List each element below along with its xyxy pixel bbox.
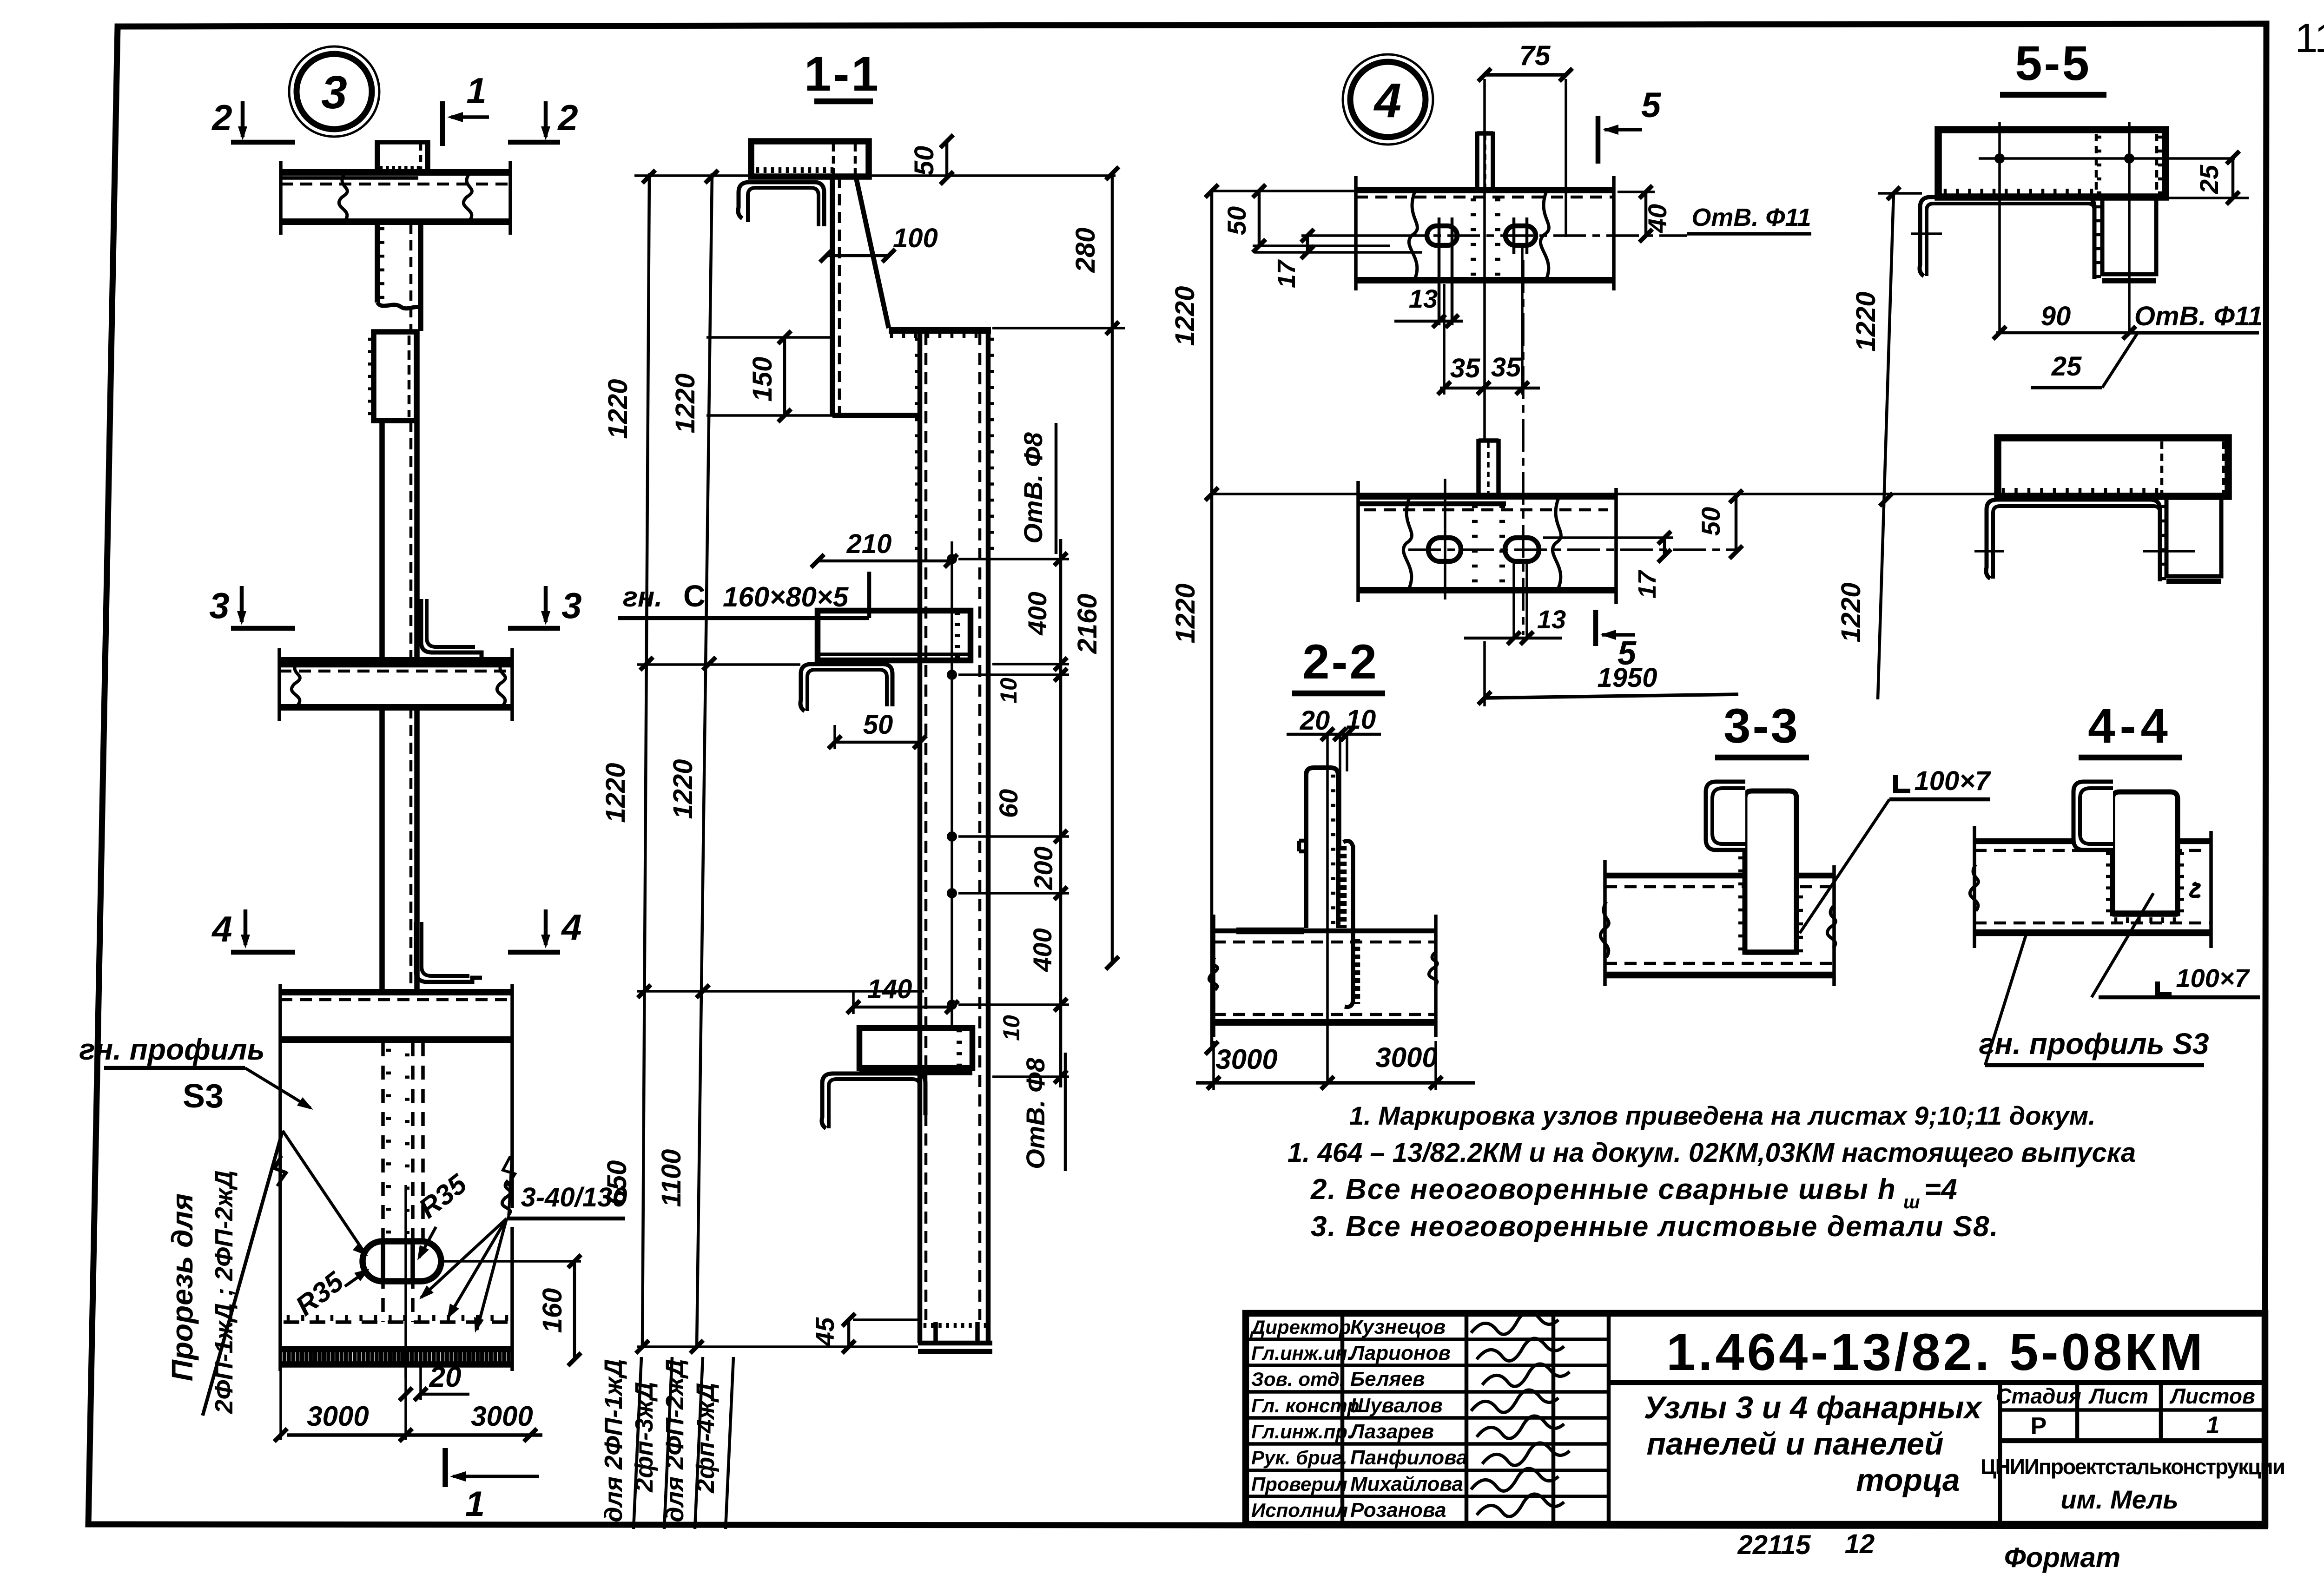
angle leg through panel [1343, 841, 1353, 1007]
column between P2 and P3 [379, 707, 385, 992]
svg-text:1100: 1100 [656, 1149, 687, 1207]
stage table [1998, 1383, 2002, 1524]
weld seam beside plate [1340, 846, 1347, 928]
svg-text:20: 20 [1300, 705, 1330, 736]
dim 17 right [1663, 538, 1666, 556]
svg-text:Рук. бриг.: Рук. бриг. [1251, 1447, 1347, 1469]
svg-text:60: 60 [994, 789, 1023, 818]
svg-text:гн.: гн. [623, 581, 662, 613]
doc number cell [1609, 1380, 2265, 1385]
label L100x7 (4-4) [2158, 981, 2172, 995]
dim 13 band1 [1394, 320, 1463, 323]
dim 100 [826, 254, 889, 257]
panel band 4-4 [1974, 838, 2211, 844]
slots band 1 [1427, 226, 1457, 245]
svg-text:210: 210 [846, 529, 892, 559]
dim 210 [818, 560, 951, 563]
svg-text:Исполнил: Исполнил [1251, 1499, 1348, 1521]
svg-text:400: 400 [1023, 592, 1052, 635]
svg-text:для 2ФП-1жД: для 2ФП-1жД [600, 1359, 627, 1522]
C-clip 3-3 [1706, 782, 1745, 850]
svg-text:ш: ш [1903, 1192, 1920, 1212]
svg-text:3000: 3000 [307, 1401, 369, 1432]
svg-text:50: 50 [1222, 206, 1251, 235]
title block outline [1246, 1313, 2265, 1524]
svg-text:3000: 3000 [1215, 1044, 1277, 1075]
svg-text:3. Все неоговоренные листов: 3. Все неоговоренные листовые детали S8. [1311, 1211, 1999, 1243]
panel band 2-2 [1214, 929, 1436, 934]
svg-text:1.464-13/82. 5-08КМ: 1.464-13/82. 5-08КМ [1666, 1323, 2205, 1381]
svg-text:ОтВ. Ф8: ОтВ. Ф8 [1021, 1057, 1050, 1169]
svg-text:1220: 1220 [603, 379, 633, 439]
label L100x7 (3-3) [1895, 775, 1910, 791]
svg-text:Лазарев: Лазарев [1349, 1420, 1434, 1443]
right post (panel edge view) [889, 327, 991, 334]
svg-text:100×7: 100×7 [1915, 766, 1992, 796]
svg-text:Проверил: Проверил [1251, 1473, 1347, 1495]
svg-text:Лист: Лист [2088, 1384, 2148, 1408]
svg-text:11: 11 [2295, 15, 2324, 61]
svg-text:3-3: 3-3 [1723, 699, 1800, 753]
web bottom bar [832, 413, 920, 418]
title block rows (signature area) [1246, 1337, 1609, 1341]
gusset plate below P1 [375, 224, 380, 303]
svg-text:гн. профиль S3: гн. профиль S3 [1979, 1027, 2209, 1060]
svg-text:1220: 1220 [1851, 291, 1881, 351]
svg-text:2-2: 2-2 [1302, 635, 1379, 689]
svg-text:1950: 1950 [1597, 663, 1657, 693]
svg-text:160×80×5: 160×80×5 [723, 581, 849, 613]
svg-text:100: 100 [893, 223, 938, 253]
svg-text:4-4: 4-4 [2088, 699, 2172, 753]
dim 35 35 [1443, 284, 1446, 395]
svg-text:Михайлова: Михайлова [1350, 1473, 1463, 1495]
svg-text:650: 650 [602, 1160, 632, 1205]
weld dashed line bottom of P3 [284, 1320, 509, 1324]
svg-text:Директор: Директор [1250, 1316, 1351, 1338]
dim 150 [783, 337, 786, 415]
svg-text:3000: 3000 [471, 1401, 533, 1432]
svg-text:10: 10 [996, 678, 1022, 704]
svg-text:Р: Р [2031, 1413, 2047, 1440]
dim 650 / 1100 chain lines [642, 173, 649, 1347]
panel P3 (big bottom panel) [280, 989, 512, 995]
svg-text:4: 4 [561, 907, 581, 948]
svg-text:2. Все неоговоренные сварн: 2. Все неоговоренные сварные швы h [1310, 1173, 1896, 1205]
section mark 5 top [1596, 116, 1601, 164]
svg-text:4: 4 [211, 909, 232, 949]
dim 50 top [945, 141, 949, 178]
svg-text:5-5: 5-5 [2015, 36, 2091, 91]
svg-text:Шувалов: Шувалов [1350, 1394, 1443, 1417]
svg-text:2: 2 [557, 97, 578, 138]
section mark 5 bottom [1593, 610, 1598, 646]
long extension to 5-5 [1212, 493, 1998, 495]
angle clip above P2 [421, 599, 482, 658]
dim 1950 [1485, 694, 1738, 698]
inner dim chain [1059, 539, 1063, 1087]
title block columns [1340, 1313, 1345, 1524]
svg-text:Листов: Листов [2169, 1384, 2255, 1408]
svg-text:17: 17 [1633, 569, 1661, 599]
detail circle 4 [1343, 54, 1433, 145]
angle clip above P3 [416, 922, 482, 982]
svg-text:3000: 3000 [1375, 1042, 1437, 1073]
svg-text:S3: S3 [183, 1078, 224, 1115]
bolt dots and centreline [951, 541, 953, 1025]
svg-text:160: 160 [537, 1288, 568, 1333]
svg-text:40: 40 [1643, 204, 1672, 233]
svg-text:22115: 22115 [1737, 1530, 1811, 1560]
svg-text:=4: =4 [1924, 1173, 1957, 1205]
svg-text:1-1: 1-1 [804, 47, 880, 101]
svg-text:2: 2 [211, 97, 232, 138]
band 1 [1356, 187, 1614, 193]
svg-text:Кузнецов: Кузнецов [1350, 1316, 1446, 1338]
panel P2 [279, 657, 512, 664]
svg-text:12: 12 [1845, 1529, 1875, 1559]
hook clip under top plate [738, 182, 824, 226]
section mark 1 bottom [442, 1448, 448, 1487]
hook clip at level 3 [822, 1074, 925, 1128]
svg-text:1220: 1220 [1170, 286, 1200, 346]
svg-text:280: 280 [1070, 228, 1101, 273]
svg-text:Гл. констр: Гл. констр [1251, 1395, 1359, 1416]
bracket box 1 [818, 611, 971, 660]
svg-text:10: 10 [998, 1015, 1024, 1041]
svg-text:1220: 1220 [1170, 583, 1201, 643]
dim 13 band2 [1464, 637, 1562, 640]
slots band 2 [1428, 538, 1461, 561]
svg-text:50: 50 [863, 710, 893, 740]
svg-text:200: 200 [1029, 846, 1058, 890]
svg-text:гн. профиль: гн. профиль [79, 1033, 264, 1066]
dim 140 [853, 1006, 952, 1009]
dim 17 left [1306, 236, 1309, 252]
svg-text:Ларионов: Ларионов [1349, 1342, 1451, 1364]
detail circle 3 [289, 46, 379, 137]
svg-text:Формат: Формат [2004, 1542, 2120, 1573]
svg-text:50: 50 [1696, 507, 1725, 536]
dim 25 (right) [2232, 158, 2235, 198]
main web [830, 177, 835, 415]
slot (obround) in P3 [363, 1241, 441, 1281]
lower right sub plate 5-5 [2166, 496, 2221, 576]
lower bracket plate 5-5 [1998, 438, 2228, 496]
chain 1220 (5-5) [1878, 193, 1894, 699]
hook clip at level 2 [800, 664, 892, 711]
top plate [751, 141, 869, 177]
plate (angle leg) 4-4 [2113, 792, 2178, 914]
svg-text:Гл.инж.ин.: Гл.инж.ин. [1251, 1342, 1353, 1364]
panel P1 [281, 169, 510, 176]
outer chain 280 / 2160 [1111, 173, 1114, 963]
svg-text:Розанова: Розанова [1350, 1499, 1446, 1522]
svg-text:1. Маркировка узлов привед: 1. Маркировка узлов приведена на листах … [1349, 1101, 2096, 1130]
dim 50 left [1258, 191, 1261, 246]
svg-text:Беляев: Беляев [1350, 1368, 1425, 1390]
bracket plate on column [374, 332, 416, 421]
dim 90 [1996, 331, 2131, 335]
plate (angle leg) 3-3 [1745, 791, 1796, 952]
svg-text:1: 1 [465, 1484, 485, 1524]
dim 75 [1485, 73, 1566, 77]
hook profile upper 5-5 [1920, 197, 2094, 279]
dim 160 [573, 1261, 576, 1359]
svg-text:2160: 2160 [1072, 593, 1103, 654]
svg-text:торца: торца [1856, 1462, 1960, 1498]
svg-text:13: 13 [1537, 605, 1566, 634]
svg-text:Зов. отд.: Зов. отд. [1251, 1368, 1345, 1390]
svg-text:3: 3 [209, 585, 229, 626]
P3 bottom edge band [280, 1346, 512, 1352]
bottom centrelines and dim 20 [404, 1366, 407, 1440]
stud above band1 [1475, 132, 1479, 190]
svg-text:панелей и панелей: панелей и панелей [1647, 1426, 1944, 1462]
extension lines to chains [634, 174, 1116, 177]
dim 50 right [1735, 496, 1738, 552]
channel bottom cap [918, 1341, 992, 1346]
lower hook profile 5-5 [1986, 500, 2160, 581]
bolt extension lines [958, 558, 1069, 560]
svg-text:ОтВ. Ф11: ОтВ. Ф11 [1691, 204, 1811, 231]
svg-text:Панфилова: Панфилова [1350, 1446, 1468, 1469]
dim 40 [1644, 192, 1648, 236]
svg-text:35: 35 [1450, 353, 1480, 383]
svg-text:C: C [683, 579, 706, 613]
hole centreline band1 [1394, 234, 1687, 237]
svg-text:75: 75 [1519, 40, 1551, 71]
svg-text:45: 45 [810, 1317, 839, 1347]
left chain 1220s [1210, 191, 1214, 1048]
bolts upper 5-5 [1994, 153, 2005, 164]
svg-text:25: 25 [2051, 351, 2082, 382]
svg-text:5: 5 [1641, 86, 1662, 125]
C-clip 4-4 [2073, 782, 2113, 850]
stud above band2 [1476, 439, 1481, 496]
dim 3000 3000 (2-2) [1196, 1081, 1475, 1085]
taper line [856, 178, 889, 328]
bracket box 2 [859, 1028, 972, 1068]
svg-text:ЦНИИпроектстальконструкции: ЦНИИпроектстальконструкции [1981, 1455, 2284, 1479]
svg-text:90: 90 [2041, 301, 2071, 331]
svg-text:1220: 1220 [1836, 582, 1866, 642]
svg-text:3: 3 [561, 585, 581, 626]
svg-text:4: 4 [1373, 73, 1401, 128]
hidden column edges inside P3 [381, 1042, 385, 1322]
svg-text:35: 35 [1491, 352, 1521, 382]
signatures squiggles [1471, 1312, 1558, 1334]
svg-text:Прорезь для: Прорезь для [165, 1193, 199, 1381]
svg-text:400: 400 [1028, 928, 1057, 972]
svg-text:25: 25 [2194, 165, 2224, 194]
svg-text:150: 150 [747, 357, 778, 402]
svg-text:1220: 1220 [670, 373, 700, 433]
svg-text:1220: 1220 [668, 759, 698, 819]
svg-text:13: 13 [1409, 284, 1438, 313]
svg-text:Гл.инж.пр.: Гл.инж.пр. [1251, 1421, 1353, 1443]
dim 45 [847, 1320, 851, 1347]
svg-text:100×7: 100×7 [2176, 963, 2250, 993]
svg-text:ОтВ. Ф8: ОтВ. Ф8 [1018, 432, 1048, 544]
svg-text:1: 1 [2206, 1412, 2220, 1439]
panel band 3-3 [1605, 873, 1834, 879]
svg-text:1: 1 [466, 70, 486, 111]
band 2 [1358, 493, 1616, 500]
right sub plate upper 5-5 [2102, 197, 2156, 274]
svg-text:им. Мель: им. Мель [2060, 1485, 2178, 1514]
upper bracket plate [1938, 130, 2166, 197]
slot centrelines [404, 1185, 407, 1378]
svg-text:ОтВ. Ф11: ОтВ. Ф11 [2134, 301, 2263, 331]
svg-text:1220: 1220 [601, 763, 631, 823]
hole centreline band2 [1408, 548, 1738, 551]
column between brackets and P2 [379, 421, 385, 660]
dim 3000 3000 [279, 1371, 282, 1440]
column top tab [375, 140, 380, 172]
svg-text:140: 140 [867, 974, 912, 1004]
svg-text:Стадия: Стадия [1996, 1384, 2081, 1408]
weld ticks at stud/band1 [1471, 198, 1476, 202]
svg-text:1. 464 – 13/82.2КМ и на докум.: 1. 464 – 13/82.2КМ и на докум. 02КМ,03КМ… [1287, 1138, 2136, 1168]
dim 50 mid [835, 741, 920, 744]
svg-text:17: 17 [1273, 259, 1301, 288]
svg-text:3: 3 [321, 66, 347, 119]
svg-text:50: 50 [909, 146, 939, 176]
vertical plate [1306, 768, 1338, 928]
svg-text:20: 20 [429, 1361, 462, 1393]
svg-text:Узлы 3 и 4 фанарных: Узлы 3 и 4 фанарных [1644, 1390, 1983, 1425]
